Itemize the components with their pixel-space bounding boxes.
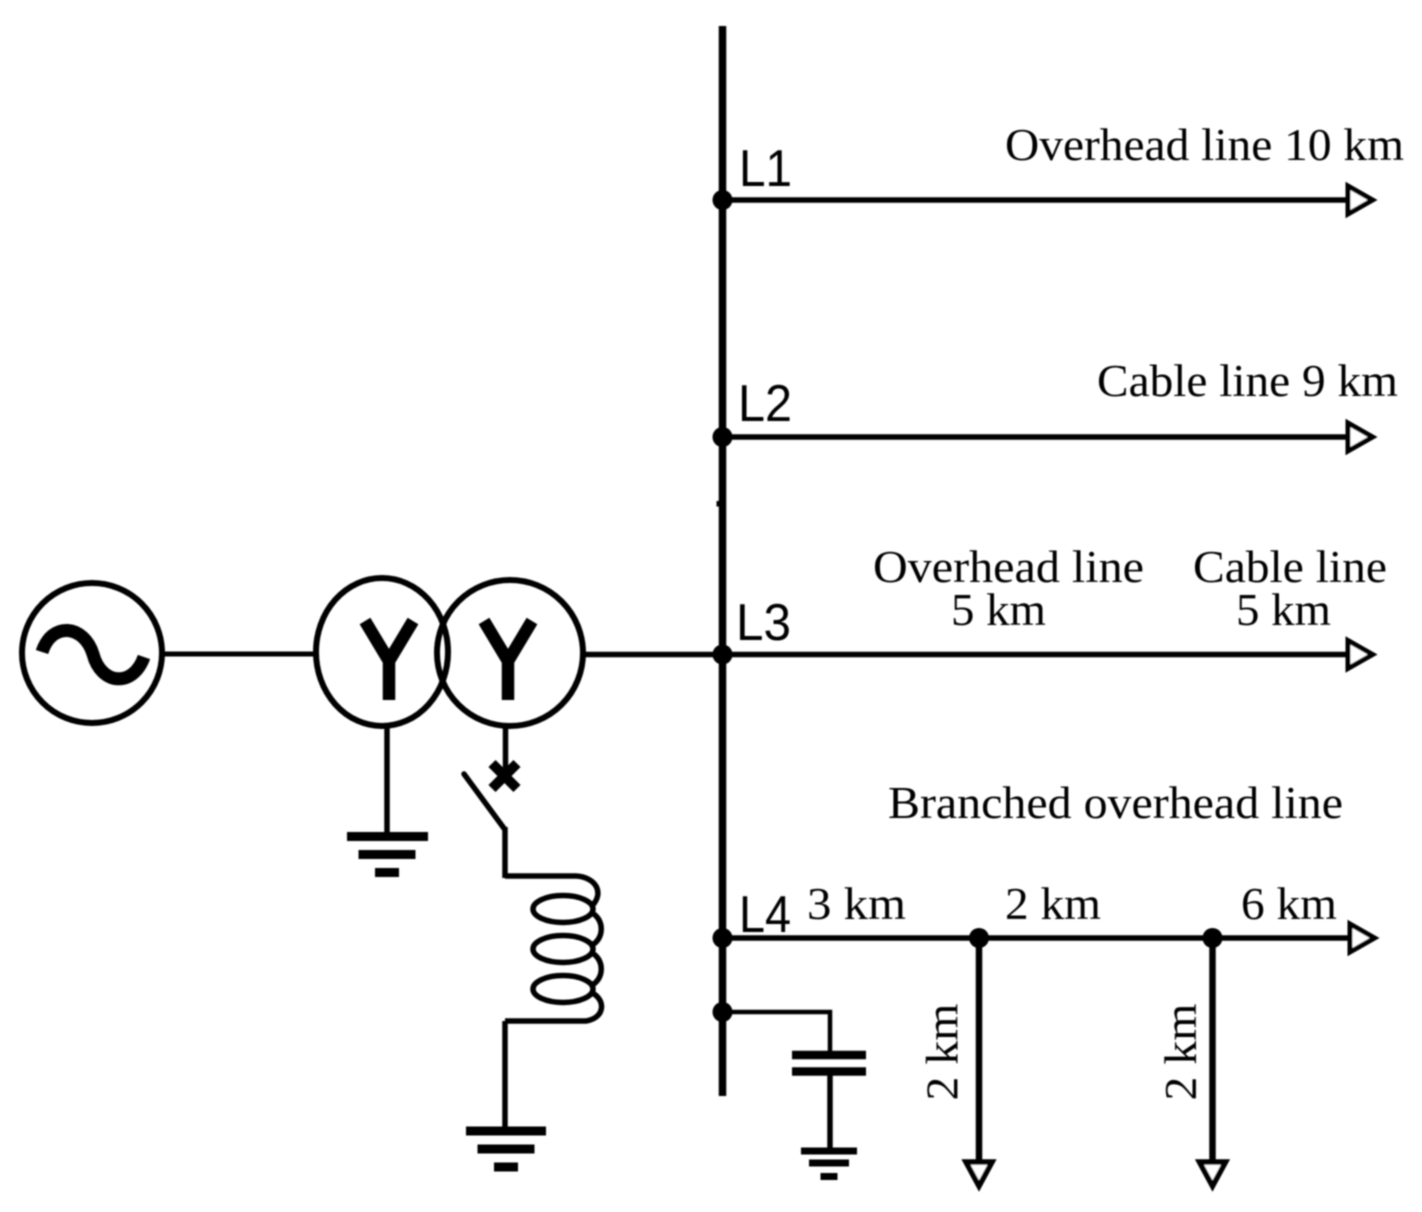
L4 branch 1 line down [976,938,983,1160]
svg-text:3 km: 3 km [807,879,906,929]
feeder L2 line [722,434,1347,440]
transformer T1 secondary winding circle [437,580,583,726]
svg-text:5 km: 5 km [951,585,1046,635]
feeder L2 arrowhead [1348,423,1373,451]
switch blade (open) [464,774,505,829]
wire capacitor to ground [827,1075,833,1148]
wire source to transformer [162,652,317,657]
node L4 [713,928,733,948]
svg-text:5 km: 5 km [1236,585,1331,635]
feeder L4 line [722,935,1349,941]
svg-text:Overhead line 10 km: Overhead line 10 km [1005,120,1404,170]
switch contact X mark [492,764,517,789]
wire switch to coil [502,827,508,878]
AC source G1 [22,583,162,723]
svg-text:L4: L4 [739,886,791,944]
ground coil [466,1131,546,1167]
branch 2 arrowhead down [1200,1162,1226,1186]
secondary wye symbol Y [484,621,532,700]
node L2 [713,427,733,447]
wire primary neutral to ground [384,725,390,834]
svg-text:2 km: 2 km [918,1004,968,1101]
ground capacitor [801,1151,857,1177]
svg-text:Branched overhead line: Branched overhead line [888,778,1343,828]
node capacitor tap [713,1002,733,1022]
svg-text:2 km: 2 km [1156,1004,1206,1101]
feeder L4 arrowhead [1350,924,1375,952]
L4 branch 2 line down [1209,938,1216,1160]
node L3 [713,645,733,665]
svg-text:2 km: 2 km [1005,879,1101,929]
feeder L3 arrowhead [1348,641,1373,669]
svg-text:6 km: 6 km [1241,879,1337,929]
node L1 [713,190,733,210]
AC source sine symbol [42,630,144,678]
wire bus tap to capacitor [722,1012,830,1052]
svg-text:Cable line 9 km: Cable line 9 km [1097,356,1398,406]
ground primary neutral [347,837,428,873]
node L4 branch 1 [969,928,989,948]
wire secondary neutral to switch [503,725,509,778]
node L4 branch 2 [1203,928,1223,948]
feeder L1 line [722,197,1347,203]
feeder L1 arrowhead [1348,186,1373,214]
svg-text:L3: L3 [736,594,791,652]
busbar [717,501,723,507]
branch 1 arrowhead down [966,1162,992,1186]
transformer T1 primary winding circle [316,578,448,726]
feeder L3 line [583,652,1347,658]
svg-text:L2: L2 [738,375,792,433]
wire coil to ground [502,1021,508,1127]
arc suppression coil L (Petersen coil) [505,876,598,906]
primary wye symbol Y [365,621,413,700]
capacitor C plates [792,1055,866,1072]
svg-text:L1: L1 [739,140,792,198]
